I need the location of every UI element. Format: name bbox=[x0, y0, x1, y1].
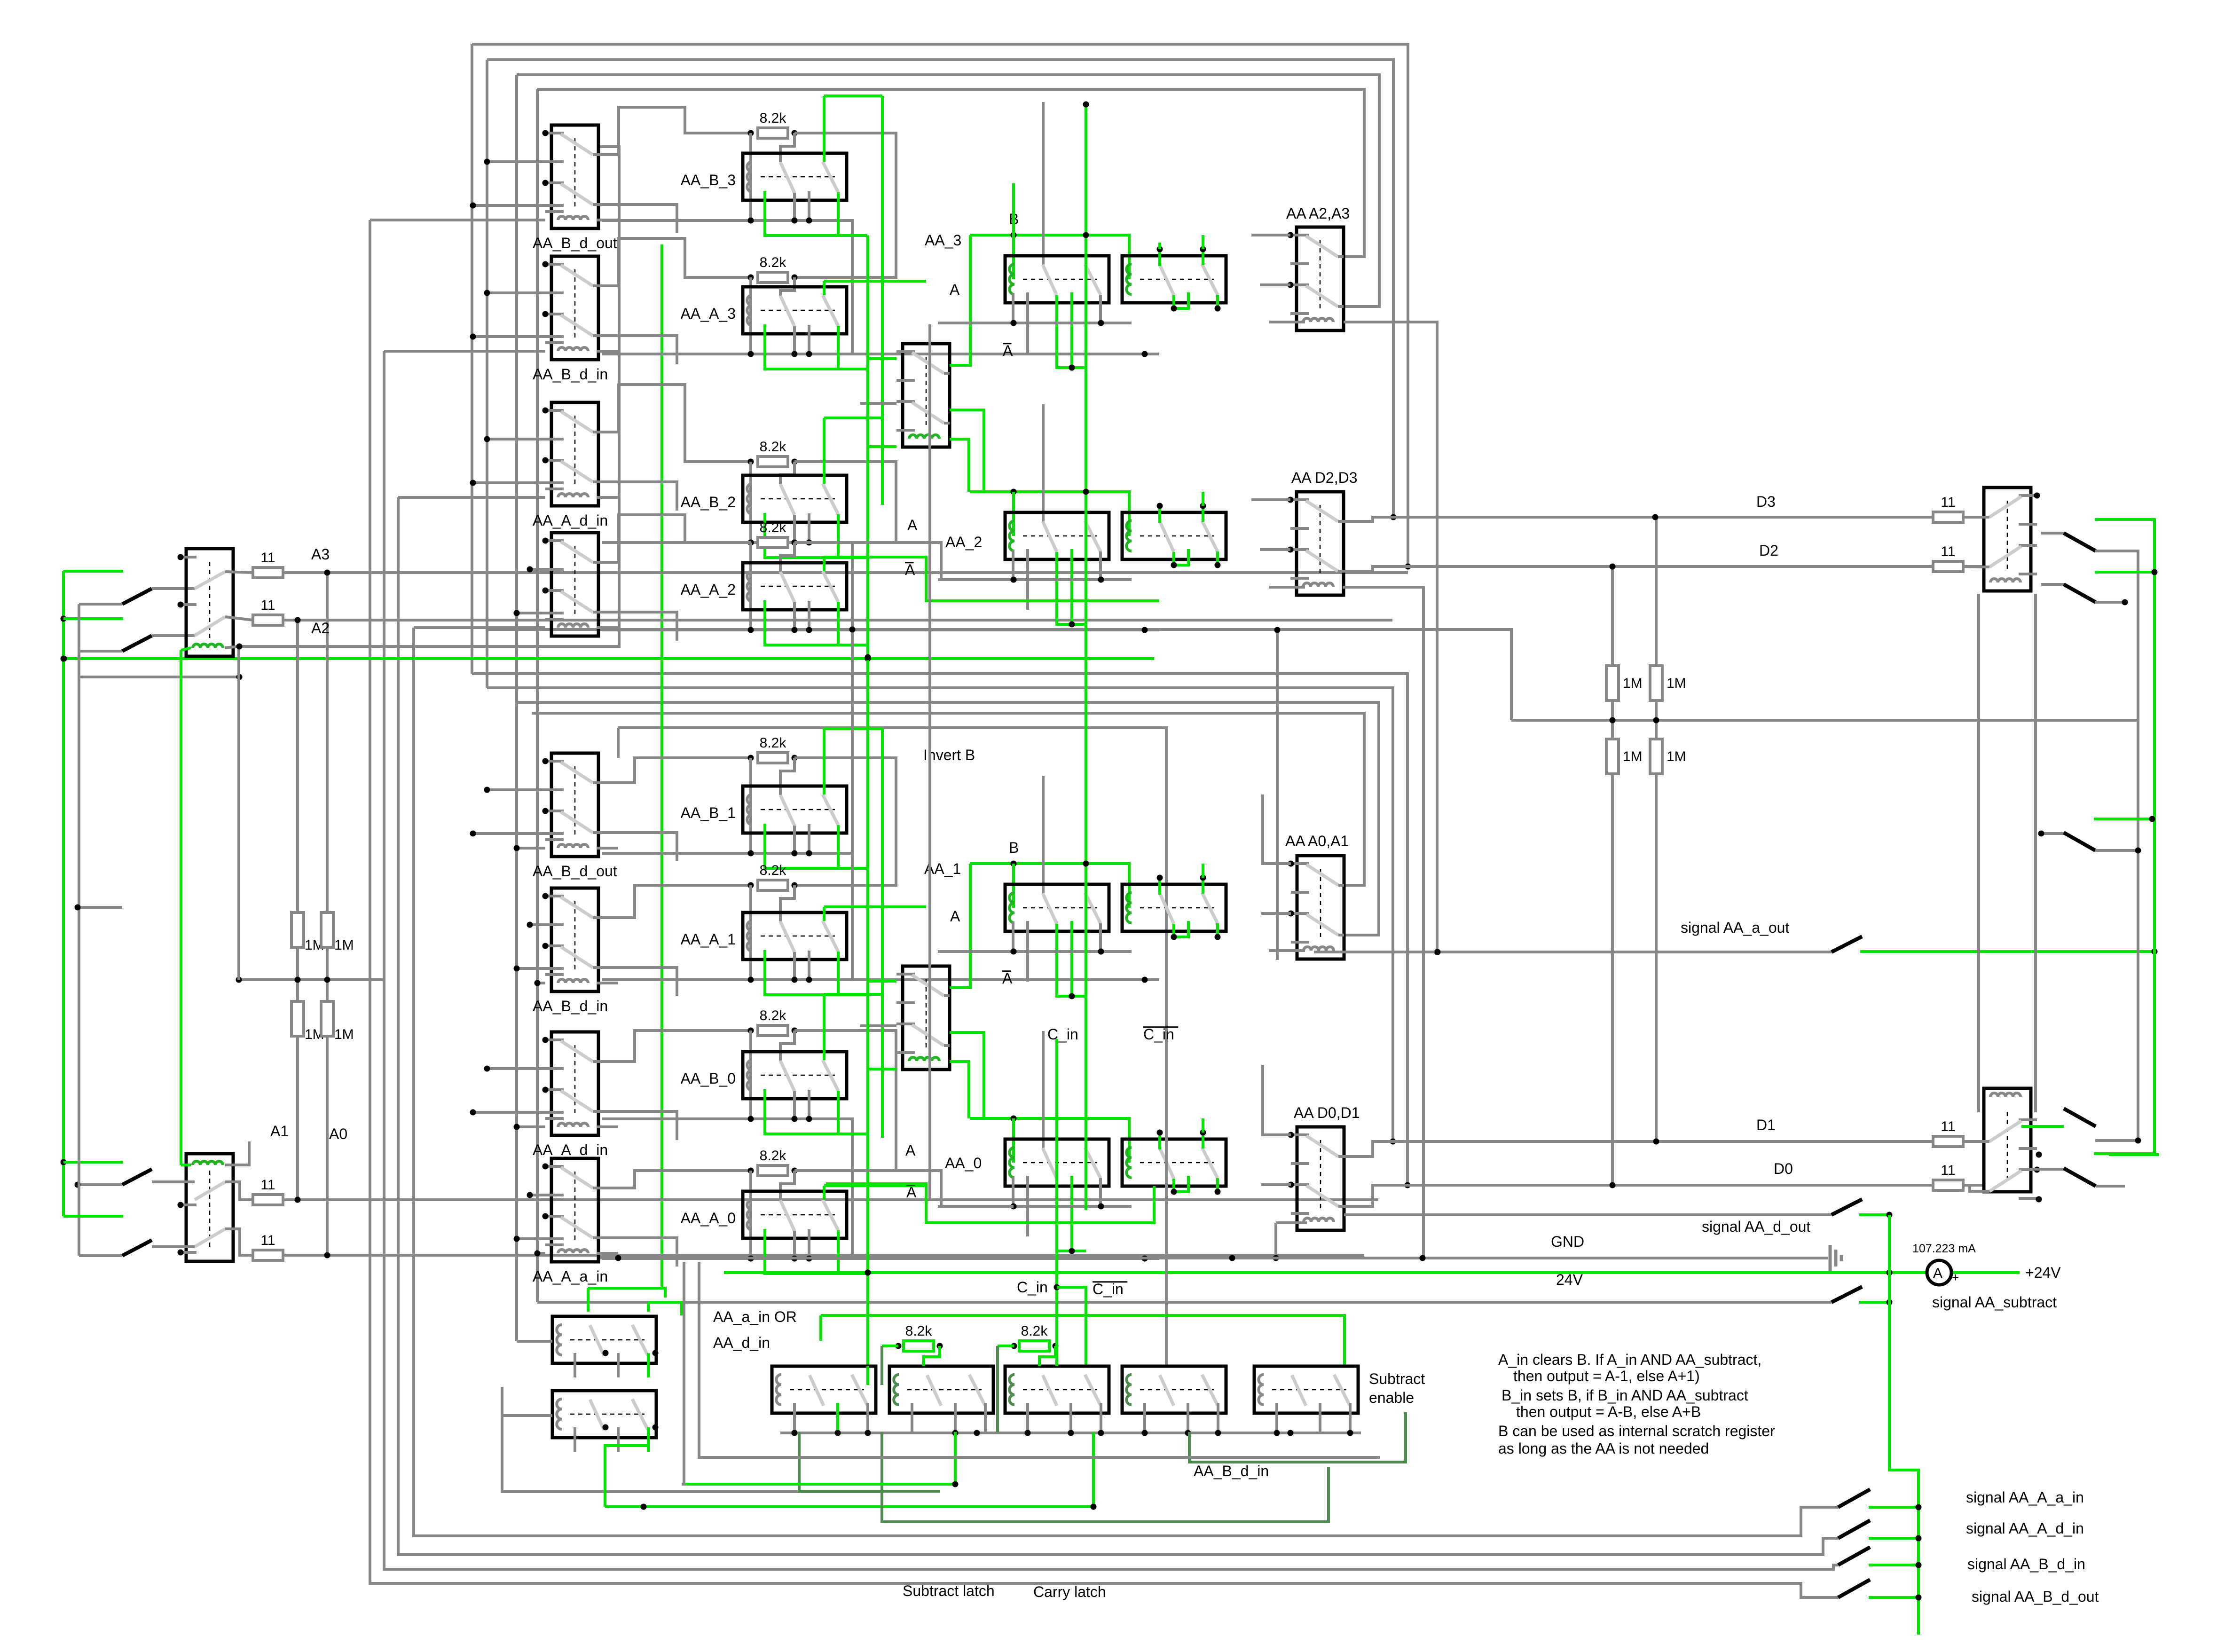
junction bbox=[1053, 1343, 1059, 1349]
wire subtract feed bbox=[537, 1301, 1832, 1304]
junction bbox=[806, 977, 812, 983]
wire green bottom bbox=[605, 1505, 1093, 1508]
wire coil out bbox=[597, 1125, 618, 1128]
svg-text:AA_0: AA_0 bbox=[945, 1155, 982, 1172]
wire B bus bit1 bbox=[970, 864, 1129, 908]
wire coil feed bbox=[517, 847, 545, 850]
relay AA D0,D1 bbox=[1288, 1127, 1344, 1230]
wire res to lever jog bbox=[780, 462, 794, 484]
wire Abar stub bit2 bbox=[1026, 549, 1029, 610]
junction bbox=[792, 1256, 798, 1262]
junction bbox=[1098, 320, 1104, 326]
wire coil drop bbox=[749, 133, 752, 220]
junction bbox=[1610, 717, 1616, 724]
svg-text:C_in: C_in bbox=[1143, 1026, 1174, 1043]
wire latch row bus bbox=[780, 1432, 1361, 1434]
wire right box bottom greens bit0 bbox=[1174, 1176, 1188, 1192]
resistor 11 bbox=[1933, 1136, 1963, 1147]
wire B bus bit2 bbox=[970, 492, 1129, 536]
wire green lever2 feed bbox=[823, 96, 825, 162]
wire green elbow top bbox=[824, 1184, 926, 1187]
wire sel lower feeds bbox=[867, 980, 896, 983]
junction bbox=[1610, 564, 1616, 570]
wire green NC stub bbox=[765, 950, 867, 995]
wire Abar stub bit3 bbox=[1026, 292, 1029, 353]
wire green lever2 out bbox=[838, 1230, 867, 1274]
junction bbox=[1347, 1430, 1353, 1436]
relay OR upper bbox=[552, 1316, 656, 1377]
junction bbox=[514, 610, 520, 616]
svg-text:B: B bbox=[1009, 839, 1019, 856]
junction bbox=[470, 831, 476, 837]
relay AA_B_d_in bbox=[542, 256, 599, 360]
resistor 11 bbox=[253, 615, 283, 625]
wire mid bus 5 drop bbox=[617, 728, 620, 758]
junction bbox=[1157, 875, 1163, 881]
junction bbox=[806, 1116, 812, 1122]
wire mid bus 3 bbox=[517, 702, 1379, 935]
junction bbox=[2122, 599, 2128, 606]
wire coil out bbox=[597, 496, 618, 499]
junction bbox=[1273, 1255, 1279, 1261]
wire row bus bbox=[602, 978, 1159, 981]
junction bbox=[1916, 1562, 1922, 1568]
junction bbox=[1653, 717, 1659, 724]
wire coil drop bbox=[749, 1171, 752, 1259]
wire coil out bbox=[597, 350, 618, 353]
junction bbox=[1083, 102, 1089, 108]
wire a_out green bbox=[1860, 950, 2154, 953]
resistor 11 bbox=[253, 1250, 283, 1260]
wire A bus bit2 bbox=[938, 578, 1132, 581]
wire coil out bbox=[597, 626, 618, 629]
wire right box top greens bit2 bbox=[1158, 506, 1161, 523]
svg-text:AA_A_a_in: AA_A_a_in bbox=[533, 1268, 608, 1285]
junction bbox=[1288, 1430, 1294, 1436]
svg-text:A: A bbox=[950, 908, 960, 925]
wire green vert 1877 bit3 bbox=[881, 96, 884, 505]
resistor 1M bbox=[291, 913, 304, 947]
junction bbox=[653, 1424, 659, 1431]
junction bbox=[1171, 562, 1177, 568]
svg-text:AA D0,D1: AA D0,D1 bbox=[1294, 1104, 1360, 1121]
wire coil left feed bbox=[180, 650, 182, 1165]
wire olive net 2 bbox=[882, 1432, 1329, 1522]
svg-text:AA_B_d_out: AA_B_d_out bbox=[533, 235, 617, 252]
wire res to lever jog bbox=[780, 758, 794, 795]
relay latch 1 bbox=[889, 1366, 993, 1432]
junction bbox=[1652, 514, 1659, 520]
junction bbox=[514, 1236, 520, 1242]
wire green NC stub bbox=[765, 513, 867, 558]
junction bbox=[792, 1028, 798, 1034]
wire vert 1455 pair bbox=[682, 1262, 684, 1484]
wire green elbow bbox=[63, 1215, 123, 1218]
wire green vert mid bbox=[866, 236, 869, 1366]
relay AA_B_d_out bbox=[542, 753, 599, 857]
junction bbox=[1083, 861, 1089, 867]
svg-text:A: A bbox=[950, 281, 960, 298]
wire A bus bit1 bbox=[938, 950, 1132, 953]
switch out upper 1 bbox=[2041, 532, 2064, 535]
junction bbox=[615, 1255, 621, 1261]
svg-text:1M: 1M bbox=[334, 1027, 354, 1042]
svg-text:as long as the AA is not neede: as long as the AA is not needed bbox=[1498, 1440, 1709, 1457]
junction bbox=[1098, 1430, 1104, 1436]
wire mid bus 2 bbox=[487, 688, 1393, 1141]
svg-text:AA D2,D3: AA D2,D3 bbox=[1291, 469, 1358, 486]
junction bbox=[835, 1430, 841, 1436]
junction bbox=[952, 1430, 959, 1436]
wire green B3 riser bbox=[1012, 183, 1015, 235]
wire lever2 drop bit0 bbox=[1099, 1178, 1102, 1206]
wire lever1 stub bbox=[793, 952, 796, 980]
wire sel lower coil out green bbox=[950, 1062, 969, 1118]
relay AA_A_a_in bbox=[542, 1158, 599, 1262]
junction bbox=[792, 540, 798, 546]
wire green top stub bbox=[1158, 243, 1161, 249]
junction bbox=[1434, 949, 1440, 955]
junction bbox=[2152, 569, 2158, 575]
svg-text:A1: A1 bbox=[270, 1123, 289, 1140]
junction bbox=[792, 540, 798, 546]
junction bbox=[470, 480, 476, 486]
wire sig green stub bbox=[1869, 1506, 1918, 1509]
wire green lever2 out bbox=[838, 1091, 867, 1134]
wire sw1 out jog bbox=[598, 1031, 751, 1062]
junction bbox=[806, 1256, 812, 1262]
svg-text:11: 11 bbox=[1941, 495, 1955, 510]
wire right box top greens bit0 bbox=[1158, 1133, 1161, 1149]
wire input stub bbox=[78, 906, 122, 909]
wire sw1 out jog bbox=[598, 238, 751, 286]
junction bbox=[1185, 1430, 1191, 1436]
wire green NC stub bbox=[765, 1229, 867, 1274]
svg-text:+24V: +24V bbox=[2025, 1264, 2061, 1281]
svg-text:A_in clears B. If A_in AND AA_: A_in clears B. If A_in AND AA_subtract, bbox=[1498, 1351, 1761, 1368]
wire NC tap 2 bbox=[517, 967, 564, 970]
switch signal AA_B_d_in bbox=[1838, 1547, 1870, 1565]
junction bbox=[865, 1430, 871, 1436]
wire left bus 4 bbox=[536, 89, 539, 1302]
wire sw2 out bbox=[598, 1238, 677, 1267]
resistor 8.2k bbox=[758, 272, 788, 283]
wire sw2 out bbox=[598, 968, 677, 996]
junction bbox=[484, 290, 490, 296]
resistor 1M bbox=[321, 913, 333, 947]
wire green Abar2 bbox=[824, 557, 1159, 601]
wire lever greens bit2 bbox=[1057, 552, 1086, 624]
relay AA_A_d_in bbox=[542, 1032, 599, 1135]
wire right box top greens bit3 bbox=[1158, 249, 1161, 266]
resistor 1M bbox=[291, 1001, 304, 1036]
wire lever1 stub bbox=[793, 193, 796, 220]
relay AA_A_d_in bbox=[542, 402, 599, 506]
junction bbox=[535, 980, 541, 986]
wire d_out green bbox=[1859, 1213, 1889, 1216]
wire GND line bbox=[600, 1257, 1828, 1259]
junction bbox=[1610, 1182, 1616, 1188]
wire NC tap 1 bbox=[487, 438, 564, 441]
junction bbox=[1200, 246, 1206, 252]
junction bbox=[1098, 1204, 1104, 1210]
junction bbox=[1171, 306, 1177, 312]
junction bbox=[748, 1116, 754, 1122]
junction bbox=[1011, 861, 1017, 867]
wire bottom bus 4 bbox=[414, 628, 1838, 1536]
wire lever1 stub bbox=[793, 602, 796, 630]
wire res to lever jog bbox=[780, 133, 794, 162]
wire left bus 1 bbox=[471, 44, 473, 674]
junction bbox=[1091, 1504, 1097, 1510]
wire D2 into relay bbox=[1963, 566, 1984, 567]
relay latch 0 bbox=[772, 1366, 876, 1432]
wire right box bottom greens bit2 bbox=[1174, 549, 1188, 565]
switch AA_a_out bbox=[1832, 936, 1862, 952]
switch A3 bbox=[122, 589, 152, 604]
wire coil out bbox=[597, 219, 618, 221]
wire D01 coil line bbox=[1276, 1221, 1307, 1224]
wire green vert B bbox=[1085, 104, 1087, 1210]
junction bbox=[484, 787, 490, 793]
junction bbox=[1011, 949, 1017, 955]
junction bbox=[1011, 577, 1017, 583]
junction bbox=[178, 1202, 184, 1208]
junction bbox=[865, 654, 871, 661]
junction bbox=[1274, 1430, 1280, 1436]
junction bbox=[1142, 977, 1148, 983]
resistor 8.2k bbox=[758, 1165, 788, 1176]
wire bus riser bbox=[237, 646, 240, 980]
wire 1M mid bbox=[296, 947, 299, 1001]
junction bbox=[806, 627, 812, 633]
switch A2 bbox=[122, 636, 152, 651]
svg-text:A3: A3 bbox=[311, 546, 330, 563]
relay input upper bbox=[178, 549, 234, 656]
svg-text:8.2k: 8.2k bbox=[760, 255, 787, 270]
junction bbox=[1405, 1182, 1411, 1188]
wire res link down bbox=[794, 462, 896, 543]
junction bbox=[952, 1481, 959, 1487]
wire coil drop bit2 bbox=[1012, 550, 1014, 580]
wire A0 line bbox=[283, 1254, 1364, 1257]
wire res to lever jog bbox=[780, 277, 794, 296]
wire sw1 out jog bbox=[598, 885, 751, 918]
junction bbox=[748, 1256, 754, 1262]
svg-text:signal AA_A_d_in: signal AA_A_d_in bbox=[1966, 1520, 2084, 1537]
wire link 168-509 bbox=[79, 676, 239, 678]
wire lever1 stub bbox=[793, 826, 796, 853]
wire row bus bbox=[602, 543, 852, 630]
wire coil drop bbox=[749, 758, 752, 853]
junction bbox=[653, 1350, 659, 1356]
svg-text:D3: D3 bbox=[1756, 493, 1776, 510]
wire A3 line bbox=[283, 571, 1408, 574]
wire left box top feed bit2 bbox=[1042, 404, 1045, 523]
wire row bus bbox=[602, 629, 1159, 631]
junction bbox=[748, 459, 754, 465]
wire D01 pin vert bbox=[1261, 1065, 1264, 1135]
resistor 1M bbox=[1650, 739, 1662, 774]
wire B coil tap bit0 bbox=[1012, 1118, 1015, 1163]
wire bottom bus 3 bbox=[398, 497, 1838, 1555]
resistor 8.2k bbox=[904, 1341, 934, 1351]
junction bbox=[792, 1116, 798, 1122]
junction bbox=[295, 977, 301, 983]
svg-text:11: 11 bbox=[1941, 1119, 1955, 1134]
wire Abar stub bit0 bbox=[1026, 1176, 1029, 1236]
svg-text:A: A bbox=[1002, 970, 1013, 987]
resistor 11 bbox=[1933, 1180, 1963, 1190]
wire NC tap 2 bbox=[473, 481, 564, 484]
svg-text:C_in: C_in bbox=[1093, 1281, 1124, 1298]
junction bbox=[792, 882, 798, 889]
wire NC tap 2 bbox=[517, 1237, 564, 1240]
relay output D3D2 bbox=[1984, 488, 2040, 591]
wire green NC stub bbox=[765, 824, 867, 868]
relay AA_B_3 bbox=[743, 153, 847, 200]
wire res link down bbox=[794, 758, 896, 885]
svg-text:8.2k: 8.2k bbox=[760, 439, 787, 455]
wire B bus bit0 bbox=[970, 1118, 1129, 1163]
junction bbox=[1142, 1256, 1148, 1262]
wire mid bus 5 bbox=[618, 728, 1166, 1366]
wire green NC stub bbox=[765, 1089, 867, 1134]
wire coil drop bit3 bbox=[1012, 293, 1014, 323]
svg-text:AA_B_d_in: AA_B_d_in bbox=[533, 998, 608, 1015]
wire NC tap 1 bbox=[487, 788, 564, 791]
relay AA_A_3 bbox=[743, 287, 847, 334]
wire coil drop bbox=[749, 885, 752, 980]
wire A3 drop bbox=[326, 571, 329, 913]
svg-text:11: 11 bbox=[1941, 1163, 1955, 1178]
junction bbox=[1916, 1595, 1922, 1601]
svg-text:AA_2: AA_2 bbox=[945, 534, 982, 551]
wire coil out bbox=[597, 1252, 618, 1255]
wire long A-line bbox=[487, 629, 1511, 720]
relay AA_B_2 bbox=[743, 475, 847, 522]
relay sel lower bbox=[896, 966, 950, 1070]
junction bbox=[748, 540, 754, 546]
junction bbox=[792, 1168, 798, 1174]
wire mid stub bbox=[808, 325, 810, 354]
junction bbox=[1011, 232, 1017, 238]
svg-text:1M: 1M bbox=[1623, 676, 1643, 691]
svg-text:AA_B_0: AA_B_0 bbox=[681, 1070, 736, 1087]
wire vert 2717 bbox=[1276, 630, 1279, 960]
wire lever greens bit3 bbox=[1057, 295, 1086, 368]
svg-text:A: A bbox=[1933, 1266, 1942, 1281]
svg-text:signal AA_subtract: signal AA_subtract bbox=[1932, 1294, 2057, 1311]
junction bbox=[1083, 489, 1089, 495]
svg-text:8.2k: 8.2k bbox=[1021, 1323, 1048, 1339]
svg-text:8.2k: 8.2k bbox=[905, 1323, 933, 1339]
junction bbox=[324, 570, 330, 576]
junction bbox=[1011, 489, 1017, 495]
wire D01 pin feeds bbox=[1261, 1133, 1291, 1136]
wire A23 coil out bbox=[1344, 322, 1437, 952]
wire NC tap 2 bbox=[473, 335, 564, 338]
wire coil feed bbox=[398, 496, 545, 499]
wire coil links bbox=[1977, 594, 1980, 1112]
junction bbox=[236, 674, 243, 680]
svg-text:8.2k: 8.2k bbox=[760, 1148, 787, 1164]
wire green riser right bbox=[1889, 1215, 1918, 1635]
wire OR green 1 bbox=[587, 1288, 590, 1312]
wire sw1 out jog bbox=[598, 1171, 751, 1188]
junction bbox=[178, 554, 184, 560]
wire D01 sw1 to D1 bbox=[1343, 1141, 1984, 1156]
relay AA_B_1 bbox=[743, 786, 847, 833]
junction bbox=[1083, 232, 1089, 238]
svg-text:A: A bbox=[906, 1184, 917, 1201]
junction bbox=[470, 334, 476, 340]
junction bbox=[1171, 934, 1177, 940]
junction bbox=[61, 1159, 67, 1165]
wire D23 coil out bbox=[1343, 587, 1423, 1258]
wire green coil entry bbox=[181, 1164, 191, 1166]
wire green right bus bbox=[2094, 519, 2154, 1154]
relay pair3 right bbox=[1122, 256, 1226, 303]
wire green lever2 out bbox=[838, 952, 867, 995]
svg-text:24V: 24V bbox=[1556, 1271, 1583, 1288]
switch input A0 bbox=[79, 1254, 122, 1257]
wire green vert left bbox=[62, 571, 65, 1216]
wire D23 sw2 to D2 bbox=[1343, 566, 1984, 571]
junction bbox=[865, 1270, 871, 1276]
svg-text:D0: D0 bbox=[1774, 1160, 1793, 1177]
wire A01 pin vert bbox=[1261, 795, 1264, 864]
junction bbox=[792, 627, 798, 633]
wire sel upper feeds bbox=[867, 357, 896, 360]
switch signal AA_A_d_in bbox=[1838, 1520, 1870, 1538]
svg-text:AA_B_d_out: AA_B_d_out bbox=[533, 863, 617, 880]
svg-text:107.223 mA: 107.223 mA bbox=[1912, 1242, 1976, 1255]
wire coil drop bbox=[749, 543, 752, 630]
wire sel upper coil out green bbox=[950, 439, 969, 492]
junction bbox=[535, 1251, 541, 1257]
wire coil out lower bbox=[225, 1141, 249, 1165]
junction bbox=[75, 1182, 81, 1188]
svg-text:C_in: C_in bbox=[1017, 1279, 1048, 1296]
wire C_in elbow bbox=[1057, 1287, 1086, 1366]
svg-text:AA_B_d_in: AA_B_d_in bbox=[533, 366, 608, 383]
wire lever1 stub bbox=[793, 1231, 796, 1259]
wire green elbow top bbox=[824, 905, 926, 908]
junction bbox=[974, 1430, 980, 1436]
wire coil drop bit1 bbox=[1012, 922, 1014, 952]
wire sel upper sw2 out green bbox=[950, 410, 984, 492]
wire NC tap 2 bbox=[517, 612, 564, 614]
wire Cbar vert bbox=[1165, 1039, 1168, 1366]
junction bbox=[1098, 577, 1104, 583]
junction bbox=[178, 1250, 184, 1256]
wire green elbow top bbox=[824, 94, 882, 97]
junction bbox=[748, 351, 754, 357]
junction bbox=[1229, 1255, 1235, 1261]
wire left box top feed bit0 bbox=[1042, 1031, 1045, 1149]
wire 1M bus bbox=[1511, 719, 2138, 722]
svg-text:AA_A_d_in: AA_A_d_in bbox=[533, 1141, 608, 1158]
wire green lever2 feed bbox=[823, 281, 825, 295]
switch A0 bbox=[122, 1240, 152, 1256]
svg-text:1M: 1M bbox=[1667, 749, 1686, 764]
switch input A2 bbox=[79, 650, 122, 653]
svg-text:AA_a_in OR: AA_a_in OR bbox=[713, 1308, 797, 1325]
wire mid stub bbox=[808, 601, 810, 630]
wire mid stub bbox=[808, 1229, 810, 1259]
junction bbox=[527, 922, 533, 928]
